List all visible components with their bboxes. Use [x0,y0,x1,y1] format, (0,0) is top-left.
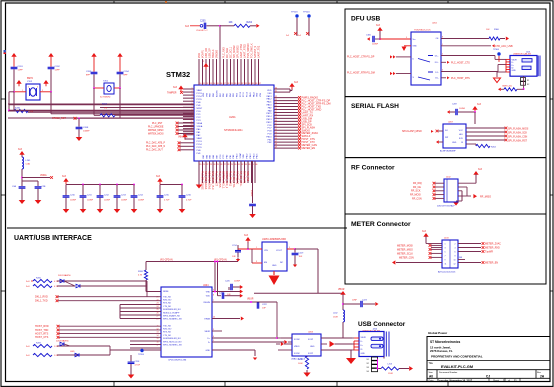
svg-text:49: 49 [275,147,277,149]
box RF Connector [345,158,546,214]
wire osc net 3 [8,110,194,112]
svg-text:RF_CE_CTRL: RF_CE_CTRL [239,171,242,187]
svg-text:VBUR: VBUR [247,299,254,301]
wire U205 en [252,262,262,264]
wire esd out3 [321,349,352,351]
svg-text:GND: GND [361,353,366,355]
svg-text:32.768kHz: 32.768kHz [100,97,110,99]
capacitor C217 [237,245,239,250]
wire j201 gnd drop [497,71,506,73]
svg-text:14: 14 [157,335,159,337]
usb shield tabs [372,357,378,360]
svg-text:VIO-CPD-IN: VIO-CPD-IN [160,260,173,262]
svg-text:PC15: PC15 [197,99,203,101]
ground U205 [273,271,275,275]
svg-text:22E2137Y0S1TALP: 22E2137Y0S1TALP [437,205,455,208]
svg-text:#100UF?+Y: #100UF?+Y [196,30,208,32]
svg-text:8PF: 8PF [86,75,91,77]
power arrow U205 in [245,237,250,241]
uart bus wires group1 [120,304,161,306]
power arrow meter [423,233,428,237]
junction crystal 2 [93,87,95,89]
svg-text:TXP_OUT1: TXP_OUT1 [243,171,246,184]
svg-text:48: 48 [275,144,277,146]
wire flash right1 [466,127,505,129]
resistor R208 [144,270,147,280]
svg-text:PLC_EN_CTRL: PLC_EN_CTRL [232,171,235,189]
wire vertical bus [119,305,121,319]
power arrow cap bank [63,178,68,182]
ground jack [383,357,385,359]
svg-text:TxpWR: TxpWR [485,250,493,253]
svg-text:PLC_RST: PLC_RST [152,123,163,125]
svg-text:SND: SND [413,46,418,48]
svg-text:S2: S2 [527,84,529,86]
mcu bottom pin wires [198,161,200,183]
svg-text:6: 6 [455,252,456,254]
svg-text:Vin: Vin [413,39,416,41]
uart bus wires group2 [130,340,161,342]
svg-text:U203: U203 [308,332,314,334]
inductor L201 [21,155,23,157]
svg-text:3v3: 3v3 [294,81,299,84]
svg-text:ADC_IN1_MEAS: ADC_IN1_MEAS [204,171,207,190]
svg-text:WRTEK_MOSI: WRTEK_MOSI [148,133,164,135]
rf J202 body [444,179,458,202]
capacitor C2B [35,186,42,188]
capacitor C221 [218,295,222,297]
svg-text:S2: S2 [367,363,369,365]
svg-text:RTS_NO: RTS_NO [163,332,172,334]
svg-text:VDDA: VDDA [197,125,203,128]
ground C216 [181,207,183,210]
power arrow rf [473,171,478,175]
net SPI_FLASH_RST [505,139,508,142]
svg-text:7: 7 [213,300,214,302]
ground C213 [116,207,118,210]
wire D- [212,341,284,343]
svg-text:VSSA: VSSA [197,122,203,125]
resistor R306 [489,37,500,40]
svg-text:DAC_OUT1_PLC: DAC_OUT1_PLC [211,171,214,190]
wire y110.2 [9,109,194,111]
svg-text:8MHz: 8MHz [27,78,34,80]
title block vline2 [535,370,537,379]
svg-text:3: 3 [445,248,446,250]
svg-text:3v3: 3v3 [244,234,249,237]
svg-text:SPK1_NOAREC_NO: SPK1_NOAREC_NO [163,318,182,321]
wire VIO drop left [145,262,147,271]
net METER_TXD [458,251,481,253]
svg-text:4: 4 [455,248,456,250]
net PLC_HOST_RTX [441,77,446,79]
svg-text:D0-: D0- [435,77,439,79]
svg-text:2: 2 [28,87,29,89]
resistor R211 [306,356,308,357]
svg-text:5: 5 [445,252,446,254]
svg-text:PA10: PA10 [267,104,273,107]
capacitor C306 [372,36,374,42]
svg-text:10K: 10K [229,22,234,24]
svg-text:3v3: 3v3 [156,175,161,178]
svg-text:RF_IRQ: RF_IRQ [413,182,422,185]
svg-text:S4: S4 [367,371,369,373]
net METER_RXD [458,247,481,249]
svg-text:RTS_NO: RTS_NO [163,303,172,305]
title block vline3 [488,378,490,381]
svg-text:SPK1_NOSREC_NO: SPK1_NOSREC_NO [163,345,182,347]
svg-text:RXN_IN0: RXN_IN0 [246,171,249,182]
svg-text:PLC_ZC_SENSE: PLC_ZC_SENSE [201,171,204,190]
svg-text:34: 34 [275,102,277,104]
svg-text:6: 6 [213,290,214,292]
svg-text:GND: GND [512,70,517,72]
svg-text:METER_CSN: METER_CSN [399,256,414,259]
svg-text:USB Connector: USB Connector [358,321,406,328]
svg-text:D203 BAW56: D203 BAW56 [56,340,69,343]
svg-text:I/O2M: I/O2M [294,353,300,355]
wire osc net 2 [100,107,194,109]
svg-text:4.7UF: 4.7UF [186,200,192,202]
svg-text:VDD: VDD [203,92,205,97]
svg-text:I/O2P: I/O2P [308,353,314,355]
crystal Y202 gnd arrows [16,80,21,84]
capacitor C210 [65,185,67,196]
svg-text:DFU USB: DFU USB [351,16,381,23]
svg-text:PC10: PC10 [247,91,249,97]
svg-text:1: 1 [22,90,23,92]
svg-text:C208: C208 [83,127,89,129]
svg-text:8PF: 8PF [124,75,129,77]
svg-text:SUSPENDLNR_NO: SUSPENDLNR_NO [163,309,181,311]
power arrow VDDA [19,151,24,155]
svg-text:VCAP: VCAP [239,152,242,158]
power arrow crystal rail 3 [91,53,96,57]
svg-text:METER_MISO: METER_MISO [397,248,413,251]
svg-text:METER_RXD_1: METER_RXD_1 [222,171,225,189]
crystal Y201 body [104,83,114,94]
wire D+ [212,337,277,339]
svg-text:DR: DR [459,257,463,259]
svg-text:VDD: VDD [206,296,211,298]
junction rst cap [78,117,80,119]
wire VIO drop right pair [214,262,216,292]
capacitor C212 [99,185,101,196]
svg-text:PLC_HOST_RTS: PLC_HOST_RTS [451,77,470,80]
svg-text:PB10: PB10 [266,136,272,138]
svg-text:PA11: PA11 [267,101,273,104]
power arrow DFU [377,27,382,31]
svg-text:D1-: D1- [435,72,439,74]
svg-text:CTS_NO: CTS_NO [163,306,172,308]
title block vline1 [436,370,438,379]
net SPI_FLASH_SCK [505,131,508,134]
net arrow top right [256,24,259,28]
mcu left pin stubs [183,88,194,90]
wire osc net 5 [8,117,194,119]
svg-text:VIO-CPD-IN: VIO-CPD-IN [214,260,227,262]
capacitor C218 [130,355,132,361]
power arrow flash [472,106,477,110]
svg-text:GND: GND [452,142,457,144]
svg-text:TAMPER: TAMPER [167,91,177,94]
wire j201 feed1 [495,58,506,60]
junction top rail [219,25,221,27]
box SERIAL FLASH [345,97,546,158]
svg-text:VCC: VCC [459,130,464,132]
wire y115.3 [115,114,194,116]
svg-text:METER_EN: METER_EN [485,261,498,264]
border zone mark top [165,1,167,3]
svg-text:CTR_ACC_USB: CTR_ACC_USB [495,45,513,48]
capacitor C214 [133,185,135,196]
svg-text:C202: C202 [55,66,61,68]
svg-text:METER_EN: METER_EN [302,147,316,150]
svg-text:SWDIO: SWDIO [216,50,219,58]
capacitor C203 [93,59,95,72]
wire shield bus [377,359,379,369]
ground C214 [133,207,135,210]
wire crystal1 left drop [9,91,14,93]
svg-text:40: 40 [275,120,277,122]
svg-text:31: 31 [275,91,277,93]
svg-text:27: 27 [157,316,159,318]
crystal Y202 pin wires [14,91,26,93]
svg-text:RXD_NO: RXD_NO [163,329,172,331]
svg-text:C205: C205 [200,21,206,23]
svg-text:28: 28 [157,319,159,321]
box DFU USB [345,9,546,97]
svg-text:43: 43 [275,129,277,131]
esd U203 body [292,334,321,356]
wire gnd pin [212,349,255,351]
svg-text:VBUS: VBUS [294,346,300,348]
mux gnd stub [404,45,411,47]
wire mux d1m [441,71,498,73]
wire dfu vcc [380,38,411,40]
svg-text:VDD: VDD [267,90,272,92]
svg-text:VBUR: VBUR [361,337,367,339]
ground usb mid [350,350,352,357]
svg-text:10NF: 10NF [352,300,358,302]
power arrow crystal rail 4 [117,53,122,57]
svg-text:RF_CSN: RF_CSN [412,197,422,200]
power arrow crystal rail 2 [48,53,53,57]
svg-text:3v3: 3v3 [376,24,381,27]
svg-text:PROPRIETARY AND CONFIDENTIAL: PROPRIETARY AND CONFIDENTIAL [431,355,483,359]
capacitor C202 [50,59,52,67]
svg-text:VHD: VHD [206,291,211,293]
svg-text:4.7K: 4.7K [138,275,143,277]
capacitor C211 [82,185,84,196]
svg-text:7: 7 [445,256,446,258]
svg-text:RF_CE: RF_CE [413,186,421,189]
wire esd in1 [281,337,292,339]
box METER Connector [345,214,546,284]
svg-text:TP306: TP306 [493,49,500,51]
wire flash vcc [474,112,476,124]
mcu U201 body [194,85,274,161]
svg-text:PLC_DAC_ATB_N: PLC_DAC_ATB_N [146,145,165,148]
ground C208 [78,135,80,138]
uart bridge U204 body [161,287,212,357]
svg-text:520K: 520K [15,108,21,110]
svg-text:METER_RXD: METER_RXD [485,246,500,249]
svg-text:RF Connector: RF Connector [351,165,395,172]
svg-text:S1: S1 [367,359,369,361]
svg-text:PA13: PA13 [267,95,273,98]
svg-text:VOUT: VOUT [276,250,283,252]
svg-text:5: 5 [213,340,214,342]
svg-text:CTS_NO: CTS_NO [163,335,172,337]
svg-text:1: 1 [192,88,193,90]
net VIO-CPD-IN rail [146,261,238,263]
usb jack pin stubs [354,337,359,339]
svg-text:VDD: VDD [243,154,245,159]
cap bank rail [66,184,134,186]
svg-text:C203: C203 [86,71,92,73]
resistor R205 [100,114,115,117]
svg-text:VSS: VSS [267,93,272,95]
svg-text:HLD: HLD [459,134,464,136]
wire osc net 4 [100,114,194,116]
svg-text:SPK0_EQATR_NO: SPK0_EQATR_NO [163,315,181,318]
svg-text:1: 1 [256,247,257,249]
wire crystal right drop [50,92,52,114]
wire regin drop [276,302,278,338]
junction VDDA [21,177,23,179]
svg-text:5: 5 [442,54,443,56]
svg-text:SCK: SCK [459,138,464,140]
svg-text:U202: U202 [432,23,438,25]
svg-text:44: 44 [275,132,277,134]
svg-text:PC13: PC13 [197,93,203,95]
wire flash right3 [466,135,505,137]
svg-text:VBUR: VBUR [204,331,210,333]
mcu right pin wires [274,88,290,90]
svg-text:SERIAL FLASH: SERIAL FLASH [351,103,399,110]
net SPI_FLASH_CSN [505,135,508,138]
svg-text:HOST_RXD: HOST_RXD [35,325,49,328]
svg-text:100NF: 100NF [372,44,379,46]
svg-text:1M: 1M [104,107,107,109]
usb J201 shield tabs [521,78,526,82]
wire osc net 1 [8,103,194,105]
usb jack J204 body [359,332,384,357]
ground C2A [21,198,23,201]
svg-text:3v3: 3v3 [298,35,301,37]
svg-text:PB15: PB15 [257,153,259,159]
svg-text:DKLJ_TXD: DKLJ_TXD [35,300,48,303]
wire vout loop [295,248,318,250]
svg-text:REGIN: REGIN [204,302,211,304]
usb jack J201 body [510,56,537,77]
title block line1 [427,360,550,362]
svg-text:HOST_RTS: HOST_RTS [35,333,49,336]
svg-text:PB12: PB12 [247,153,249,159]
ground C212 [99,207,101,210]
svg-text:47: 47 [275,141,277,143]
cap bank rail 2 [160,184,182,186]
ground C211 [82,207,84,210]
svg-text:PB14: PB14 [266,116,272,118]
svg-text:STM32F4x1Rx: STM32F4x1Rx [224,128,243,132]
svg-text:9: 9 [406,37,407,39]
svg-text:4.7UF: 4.7UF [135,365,141,367]
svg-text:45: 45 [275,135,277,137]
svg-text:5: 5 [289,247,290,249]
usb jack J201 pin stubs [506,58,510,60]
inductor L202 [343,310,345,322]
capacitor C205 [203,23,205,29]
svg-text:ST Microelectronics: ST Microelectronics [430,340,461,344]
svg-text:EVALKIT-PLC-GM: EVALKIT-PLC-GM [441,365,473,369]
ground C210 [65,207,67,210]
svg-text:3: 3 [192,94,193,96]
svg-text:TS3USB221-DCK: TS3USB221-DCK [414,30,431,32]
svg-text:PB12: PB12 [266,122,272,124]
svg-text:46: 46 [275,138,277,140]
ground C207 [252,212,254,215]
svg-text:VDDA: VDDA [40,174,47,177]
cap bank junctions [82,184,84,186]
wire flash right4 [466,139,505,141]
svg-text:PC15: PC15 [197,147,203,149]
ground C2B [37,198,39,201]
wire esd in2 [276,343,280,345]
svg-text:3: 3 [42,90,43,92]
svg-text:PLC_DAC_OUT: PLC_DAC_OUT [146,149,163,152]
svg-text:AVX-64-1504-S1D1: AVX-64-1504-S1D1 [438,271,456,274]
power arrow cap bank 2 [157,178,162,182]
wire VBUR pin [212,330,222,332]
svg-text:42: 42 [275,126,277,128]
svg-text:RXD_NO: RXD_NO [163,300,172,302]
mux U202 switches [418,59,430,63]
flash U207 body [443,124,466,148]
svg-text:4: 4 [192,97,193,99]
svg-text:VBA: VBA [178,136,183,139]
svg-text:ADC_IN2_MEAS: ADC_IN2_MEAS [208,171,211,190]
svg-text:METER_MOSI: METER_MOSI [397,244,413,247]
svg-text:SPI_FLASH_SCK: SPI_FLASH_SCK [508,131,528,134]
wire flash right2 [466,131,505,133]
capacitor C213 [116,185,118,196]
wire mux d1p [441,55,495,57]
svg-text:11: 11 [445,264,447,266]
title block line3 [427,377,550,379]
svg-text:TP204: TP204 [303,12,310,14]
net meter left arrow [392,260,395,264]
svg-text:3v3: 3v3 [478,168,483,171]
svg-text:L201: L201 [26,160,32,162]
svg-text:PC14: PC14 [197,96,203,98]
wire j201 feed2 [498,64,506,66]
svg-text:100NF: 100NF [138,200,145,202]
svg-text:CJ: CJ [486,374,490,378]
svg-text:41: 41 [275,123,277,125]
mcu top pin wires [198,59,200,85]
svg-text:25: 25 [157,309,159,311]
svg-text:RF_MISO: RF_MISO [480,196,491,199]
resistor R204 [234,24,250,27]
svg-text:100NF: 100NF [104,200,111,202]
svg-text:Y201: Y201 [103,81,109,83]
svg-text:TP203: TP203 [291,12,298,14]
svg-text:12PF: 12PF [55,70,61,72]
svg-text:3v3: 3v3 [18,148,23,151]
title block line2 [427,369,550,371]
